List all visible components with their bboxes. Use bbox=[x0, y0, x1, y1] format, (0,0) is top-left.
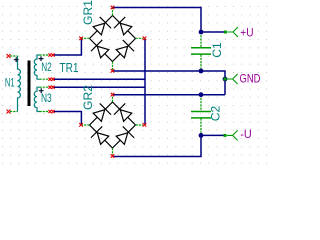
svg-text:GR2: GR2 bbox=[81, 85, 95, 110]
node marker GR2 top pin bbox=[111, 93, 115, 97]
polarity mark N2 bbox=[39, 56, 44, 61]
diode GR2 D3 (bottom to left) bbox=[90, 125, 113, 148]
junction GR2 plus branch / C2 top bbox=[199, 92, 204, 97]
svg-text:TR1: TR1 bbox=[60, 60, 79, 75]
svg-text:C1: C1 bbox=[210, 42, 224, 58]
wire C2 bottom to GR2 minus output bbox=[113, 135, 202, 156]
svg-text:GND: GND bbox=[240, 72, 261, 86]
svg-text:C2: C2 bbox=[209, 105, 223, 121]
pin N2 bottom bbox=[40, 78, 49, 80]
node marker N1 bottom terminal bbox=[7, 110, 11, 114]
pin N3 top bbox=[40, 86, 49, 88]
node marker GR2 bottom pin bbox=[111, 154, 115, 158]
node marker N2 bottom pin bbox=[48, 78, 51, 81]
pin N3 bottom bbox=[40, 111, 49, 113]
pin GR1 left AC bbox=[82, 37, 90, 39]
node marker GR1 top pin bbox=[111, 6, 115, 10]
svg-text:GR1: GR1 bbox=[81, 0, 95, 25]
port GND bbox=[224, 74, 238, 84]
wire GND port down to GR2 plus branch bbox=[224, 79, 226, 95]
port -U bbox=[224, 130, 238, 140]
junction -U / C2 bottom bbox=[199, 133, 204, 138]
node marker GR2 left pin bbox=[79, 123, 83, 127]
node marker GR1 right pin bbox=[143, 37, 147, 41]
pin GR2 bottom minus bbox=[112, 148, 114, 155]
pin GR1 bottom minus bbox=[112, 62, 114, 70]
polarity mark N1 bbox=[14, 57, 19, 62]
svg-text:N2: N2 bbox=[41, 60, 52, 74]
wire -U rail to port bbox=[201, 134, 224, 136]
diode GR1 D2 (right to top) bbox=[113, 16, 136, 39]
wire AC common vertical bbox=[144, 38, 146, 125]
pin GR2 right AC bbox=[136, 124, 144, 126]
diode GR1 D3 (bottom to left) bbox=[90, 39, 113, 62]
pin N2 top bbox=[40, 54, 49, 56]
wire GR1 plus output to C1/+U junction bbox=[113, 8, 202, 33]
winding N1 (primary) bbox=[18, 56, 21, 112]
winding N3 (secondary) bbox=[34, 87, 39, 111]
junction +U / C1 top bbox=[199, 30, 204, 35]
diode GR2 D4 (bottom to right) bbox=[113, 125, 136, 148]
capacitor C2 bbox=[191, 95, 211, 136]
pin GR2 left AC bbox=[82, 124, 90, 126]
diode GR2 D2 (right to top) bbox=[113, 102, 136, 125]
node marker N3 bottom pin bbox=[48, 110, 51, 113]
wire N2 bottom to AC common bbox=[54, 78, 145, 80]
pin GR2 top plus bbox=[112, 96, 114, 102]
node marker N1 top terminal bbox=[7, 54, 11, 58]
pin N1 bottom bbox=[10, 111, 18, 113]
wire N3 top to AC common bbox=[54, 86, 145, 88]
wire GND rail from GR1 minus bbox=[113, 71, 226, 79]
diode GR2 D1 (left to top) bbox=[90, 102, 113, 125]
diode GR1 D4 (bottom to right) bbox=[113, 39, 136, 62]
node marker GR2 right pin bbox=[143, 123, 147, 127]
pin GR1 top plus bbox=[112, 8, 114, 15]
winding N2 (secondary) bbox=[34, 55, 39, 79]
junction GND rail / GND port bbox=[223, 77, 228, 82]
junction GND rail / C1 bottom bbox=[199, 69, 204, 74]
wire N2 top to GR1 left AC bbox=[54, 38, 81, 55]
core bbox=[28, 61, 31, 107]
node marker N2 top pin bbox=[48, 53, 51, 56]
svg-text:N1: N1 bbox=[5, 76, 15, 90]
bridge rectifier GR1 bbox=[82, 8, 143, 70]
svg-text:-U: -U bbox=[240, 127, 252, 141]
pin N1 top bbox=[10, 55, 18, 57]
node marker GR1 left pin bbox=[79, 37, 83, 41]
node marker GR1 bottom pin bbox=[111, 69, 115, 73]
diode GR1 D1 (left to top) bbox=[90, 16, 113, 39]
wire GR2 plus to GND branch bbox=[113, 94, 226, 96]
svg-text:+U: +U bbox=[240, 26, 253, 40]
transformer TR1 bbox=[10, 55, 48, 112]
polarity mark N3 bbox=[39, 88, 44, 93]
wire N3 bottom to GR2 left AC bbox=[54, 112, 81, 126]
capacitor C1 bbox=[191, 32, 211, 71]
bridge rectifier GR2 bbox=[82, 96, 143, 155]
node marker N3 top pin bbox=[48, 86, 51, 89]
wire +U rail to port bbox=[201, 31, 224, 33]
pin GR1 right AC bbox=[136, 37, 144, 39]
port +U bbox=[224, 27, 238, 37]
svg-text:N3: N3 bbox=[41, 91, 52, 105]
